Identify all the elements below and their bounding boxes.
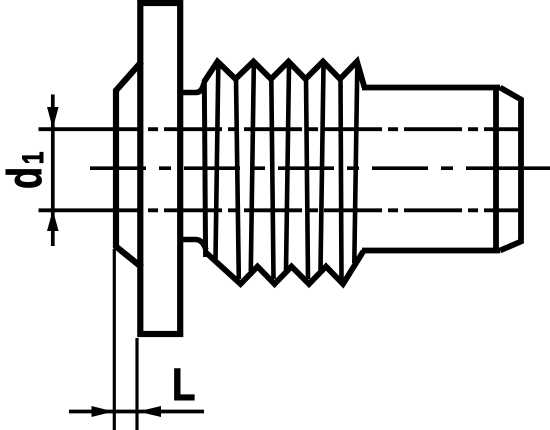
thread flank line 4 bbox=[271, 78, 273, 279]
shank chamfered end outline bbox=[500, 88, 521, 251]
svg-text:1: 1 bbox=[16, 152, 50, 165]
collar with chamfers bbox=[116, 64, 140, 266]
thread flank line 6 bbox=[306, 78, 308, 279]
L extension line left bbox=[113, 249, 116, 430]
d1 extension line bottom bbox=[39, 208, 143, 212]
flange disc side view bbox=[140, 3, 180, 334]
d1 dimension line with arrows bbox=[51, 95, 55, 247]
thread flank line 2 bbox=[236, 78, 239, 279]
L extension line right bbox=[135, 338, 138, 430]
thread crest profile top bbox=[204, 62, 365, 88]
thread flank line 5 bbox=[286, 66, 289, 270]
shank bottom edge bbox=[362, 248, 500, 254]
neck bottom line bbox=[181, 240, 206, 251]
thread flank line 9 bbox=[354, 66, 357, 263]
thread flank line 1 bbox=[216, 66, 219, 259]
svg-text:d: d bbox=[0, 167, 51, 189]
svg-text:L: L bbox=[172, 359, 195, 410]
thread crest profile bottom bbox=[207, 251, 364, 284]
d1 extension line top bbox=[39, 127, 143, 131]
thread flank line 3 bbox=[251, 66, 254, 271]
shank end face line bbox=[493, 86, 499, 252]
thread start runout line bbox=[204, 80, 205, 257]
neck top line bbox=[181, 83, 204, 93]
center line right tail bbox=[524, 166, 550, 170]
center line axis bbox=[90, 166, 519, 170]
label d1 bbox=[0, 152, 51, 189]
L dimension line with arrows bbox=[69, 410, 204, 414]
thread flank line 8 bbox=[341, 78, 342, 281]
shank top edge bbox=[362, 85, 500, 91]
thread flank line 7 bbox=[321, 66, 324, 270]
